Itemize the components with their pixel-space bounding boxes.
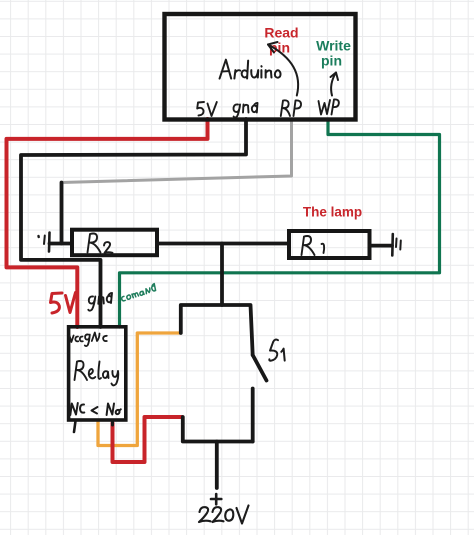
switch S1 blade [253,355,267,381]
label: pin 5V (handwritten) [197,102,217,116]
relay pin stub NO [111,421,114,426]
label: R2 [88,234,113,253]
wire: orange from relay C to switch top-left [98,333,180,446]
switch bottom bracket / lamp return [183,417,253,442]
wire: R1 right lead [370,244,393,248]
symbol: + polarity [211,494,221,504]
label: gnd (black handwritten, near relay) [88,293,112,311]
svg-text:Write: Write [316,37,351,53]
terminal: left battery contact [39,233,50,252]
label: relay bottom pins NC c NO [70,403,121,415]
wire: green from Arduino WP to relay command [120,119,440,327]
arrow: Write pin to WP [331,73,339,96]
label: pin WP (handwritten) [319,99,339,114]
svg-text:The lamp: The lamp [303,205,362,220]
label: S1 [269,340,284,361]
label: pin gnd (handwritten) [233,103,257,118]
wire: red from relay NO to lamp bottom-left [113,417,183,462]
label: Arduino (handwritten) [220,60,281,79]
label: relay top pins vcc gN c [70,333,107,347]
svg-text:pin: pin [321,52,342,68]
switch S1 top bracket [181,305,253,355]
resistor R2 [72,230,157,256]
wire: gray from Arduino RP [62,119,292,183]
label: pin RP (handwritten) [281,100,301,116]
resistor R1 [289,231,370,258]
wire: junction down to switch [220,244,224,306]
wire: stem to 220V [215,442,219,489]
wire: black from gray junction down to R2 left lead [60,183,64,244]
label: comand (green handwritten) [120,284,156,302]
Arduino box U1 [165,14,356,120]
relay pin stub NC [74,421,76,432]
label: 5V (red handwritten) [51,293,76,314]
label: Relay (handwritten) [75,361,119,385]
relay K1 box [69,327,126,420]
label: 220V (handwritten) [199,506,249,524]
wire: black gnd from Arduino to relay gnd [21,119,246,327]
wire: red 5V from Arduino to relay vcc [7,119,208,327]
wire: lead to R2 left [50,242,73,246]
wire: R2 right to R1 left [157,242,289,246]
terminal: right battery contact [392,234,401,256]
switch S1 bottom terminal [251,389,255,442]
arrow: Read pin to RP [268,42,298,96]
label: R1 [302,236,325,255]
svg-text:Read: Read [264,24,298,40]
